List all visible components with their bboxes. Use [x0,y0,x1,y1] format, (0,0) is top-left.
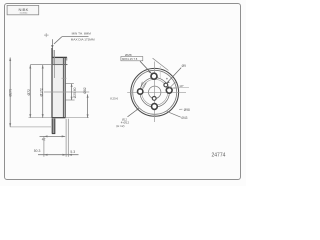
centerline [44,91,89,93]
border frame [5,4,241,180]
svg-text:MIN TH. 8MM: MIN TH. 8MM [72,32,92,36]
svg-text:Ø82: Ø82 [83,87,87,94]
svg-text:50.3: 50.3 [34,149,41,153]
disc top cap [52,56,68,58]
top label leader [140,61,151,73]
svg-text:24774: 24774 [212,153,226,159]
svg-text:nisshinbo: nisshinbo [20,12,28,14]
bolt hole left [138,89,143,94]
svg-text:Ø98: Ø98 [184,108,190,112]
annotation leader vertical [51,39,53,57]
inner drum circle [133,70,177,114]
svg-text:Ø172: Ø172 [39,88,43,96]
bottom extension lines [43,137,45,157]
extension tick [159,66,161,78]
vertical centerline [153,62,155,123]
dimension bore [62,77,67,79]
horizontal centerline [127,91,186,93]
service hole SW [152,97,156,101]
dimension drum OD [42,65,44,118]
svg-text:MAX DIA 173MM: MAX DIA 173MM [71,37,95,41]
svg-text:Ø279: Ø279 [9,88,13,96]
bolt hole bottom [152,104,158,110]
service hole NE [164,83,168,87]
small mark NE of top hole [166,78,168,80]
annotation diagonal leader [54,37,62,44]
stray leader diagonal [153,58,169,70]
band bottom edge [29,117,89,119]
svg-text:Ø43: Ø43 [181,116,187,120]
outer drum circle [131,68,179,116]
svg-text:M8X1.25 T 8: M8X1.25 T 8 [122,57,138,61]
bottom dimension line [38,154,79,156]
leader strokes near left hole [143,83,146,89]
dimension drum ID [29,65,31,118]
bolt hole right [166,87,172,93]
disc bar interior shading [52,58,65,118]
pilot circle [149,86,161,98]
svg-text:5.3: 5.3 [70,150,75,154]
dimension OD vertical [9,58,11,127]
annotation underline [62,36,89,38]
disc outboard face [51,48,53,118]
thickness tick [44,34,49,36]
bolt circle [140,78,169,107]
svg-text:8.25-6: 8.25-6 [110,97,118,101]
bolt hole top [151,73,157,79]
dimension hat depth mid [40,135,66,137]
svg-text:Ø25.60: Ø25.60 [73,87,77,98]
OD bottom extension line [10,126,51,128]
lower hat wall [51,119,53,134]
upper hat wall double line [54,50,56,78]
angle dim line [172,87,189,90]
svg-text:NiBK: NiBK [19,7,29,12]
dimension flange [87,94,89,117]
logo box [7,5,39,14]
svg-text:(H 12): (H 12) [116,124,124,128]
top label box [121,57,143,61]
svg-text:10°: 10° [179,84,184,88]
right top leader [166,68,181,84]
hub circle [142,79,168,105]
disc inboard face lines [62,57,64,117]
bottom left leader [128,109,139,117]
drum edge line [30,64,67,66]
svg-text:Ø9: Ø9 [182,64,186,68]
svg-text:Ø72: Ø72 [27,89,31,96]
annotation leader arrow [51,45,53,49]
